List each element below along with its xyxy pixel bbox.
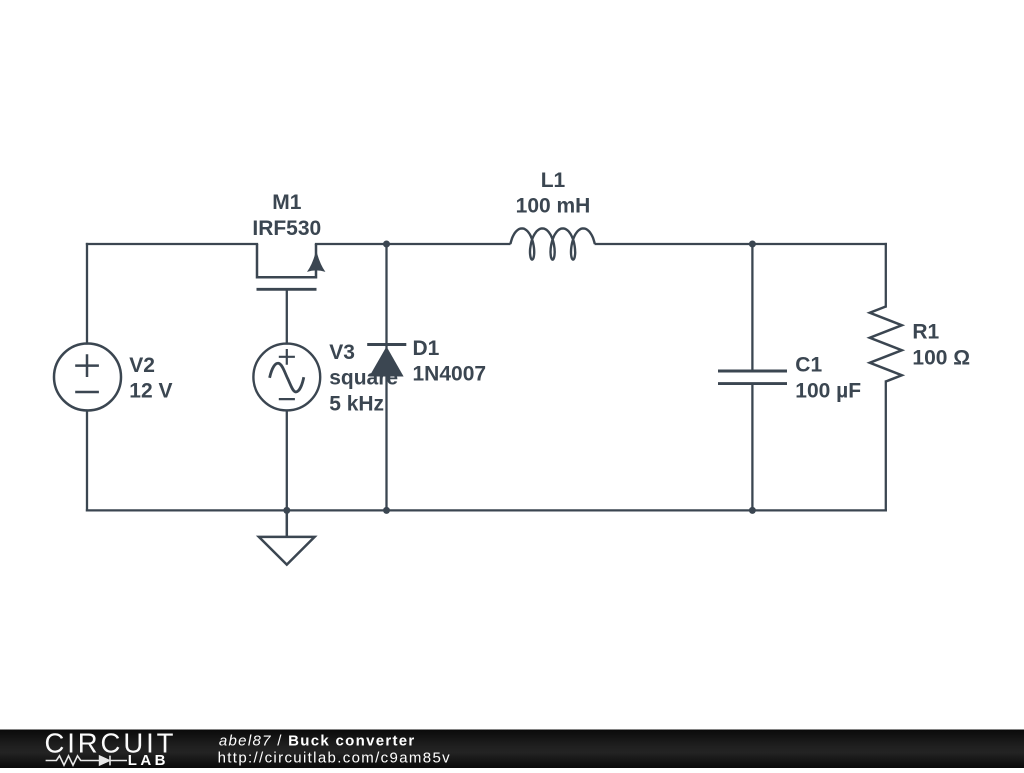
wire resistor branch leads xyxy=(885,244,887,510)
wire bottom rail xyxy=(87,509,886,511)
MOSFET M1 symbol xyxy=(257,244,326,289)
wire top rail right segment xyxy=(596,243,886,245)
svg-text:5 kHz: 5 kHz xyxy=(329,392,384,415)
ground symbol xyxy=(259,510,315,564)
capacitor C1 plates xyxy=(718,371,787,384)
junction node dot top capacitor xyxy=(749,241,756,248)
junction node dot bottom ground xyxy=(283,507,290,514)
voltage source V3 symbol xyxy=(253,344,320,411)
footer bar xyxy=(0,730,1024,769)
wire left branch (V2 leads) xyxy=(86,244,88,510)
svg-text:abel87 / Buck converter: abel87 / Buck converter xyxy=(219,732,416,749)
svg-text:L1: L1 xyxy=(541,169,566,192)
svg-text:100 µF: 100 µF xyxy=(795,379,861,402)
svg-text:V2: V2 xyxy=(129,354,155,377)
svg-text:D1: D1 xyxy=(413,337,440,360)
svg-text:M1: M1 xyxy=(272,191,301,214)
svg-text:12 V: 12 V xyxy=(129,380,172,403)
junction node dot bottom diode xyxy=(383,507,390,514)
svg-text:R1: R1 xyxy=(912,321,939,344)
svg-text:http://circuitlab.com/c9am85v: http://circuitlab.com/c9am85v xyxy=(218,750,451,767)
diode D1 symbol xyxy=(367,345,406,377)
wire diode branch vertical xyxy=(385,244,387,510)
svg-text:C1: C1 xyxy=(795,354,822,377)
svg-text:V3: V3 xyxy=(329,341,355,364)
resistor R1 zigzag xyxy=(870,307,902,382)
voltage source V2 symbol xyxy=(54,344,121,411)
junction node dot bottom capacitor xyxy=(749,507,756,514)
inductor L1 coil xyxy=(510,228,594,259)
svg-text:1N4007: 1N4007 xyxy=(413,363,487,386)
svg-text:100 mH: 100 mH xyxy=(516,194,591,217)
svg-text:IRF530: IRF530 xyxy=(252,217,321,240)
wire V3 branch (gate lead and lower lead) xyxy=(286,289,288,510)
junction node dot top diode xyxy=(383,241,390,248)
wire top rail middle segment xyxy=(316,243,509,245)
wire capacitor branch xyxy=(751,244,753,510)
svg-text:LAB: LAB xyxy=(128,752,169,768)
footer logo resistor-diode squiggle xyxy=(46,756,127,766)
wire top rail left segment xyxy=(87,243,257,245)
svg-text:100 Ω: 100 Ω xyxy=(912,346,970,369)
